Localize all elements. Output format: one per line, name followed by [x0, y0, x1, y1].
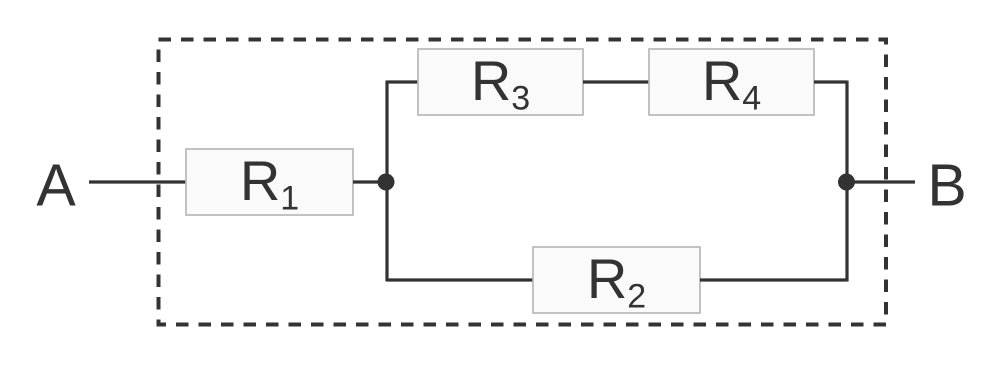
junction node (right): [838, 174, 855, 191]
subcircuit boundary (dashed box): [159, 40, 887, 325]
wire left vertical branch: [385, 81, 388, 282]
wire R4 to right vertical branch: [814, 80, 847, 83]
resistor R1: [186, 149, 353, 218]
resistor R3: [418, 49, 583, 118]
resistor R4: [649, 49, 814, 118]
wire left junction to R2: [387, 278, 534, 281]
wire A to R1: [89, 180, 187, 183]
svg-text:B: B: [927, 153, 966, 219]
svg-text:A: A: [36, 153, 76, 219]
wire left junction to R3: [387, 80, 419, 83]
wire right vertical branch: [845, 81, 848, 282]
wire R1 to left junction: [353, 180, 388, 183]
wire R3 to R4: [583, 80, 650, 83]
wire R2 to right junction: [700, 278, 847, 281]
resistor R2: [533, 247, 700, 316]
wire right junction to B: [847, 180, 915, 183]
junction node (left): [378, 174, 395, 191]
